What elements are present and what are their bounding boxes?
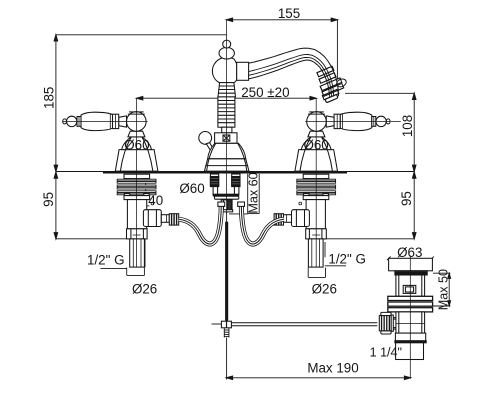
column bell skirt [204, 159, 249, 171]
fixture centrelines [227, 20, 411, 379]
left handle fixture (mirrored for right) [62, 98, 178, 267]
svg-text:Ø26: Ø26 [132, 281, 157, 296]
column finial ball 1 [223, 40, 231, 48]
pop-up lift knob [199, 132, 212, 145]
mounting studs [210, 174, 218, 187]
svg-text:1/2" G: 1/2" G [87, 252, 125, 267]
dimension Max 190 (rod to waste centre) [226, 377, 410, 379]
svg-text:Ø60: Ø60 [179, 181, 204, 196]
spray head band outlines [317, 66, 344, 103]
clamp plate [215, 196, 239, 199]
waste side port [403, 285, 416, 293]
dimension 155 (spout reach) [226, 20, 337, 84]
column ribbed barrel [218, 97, 235, 127]
leader line 1/2 G left [101, 267, 128, 269]
pop-up drain rod [226, 212, 228, 222]
column neck rings [218, 83, 236, 97]
handle neck and collar [119, 116, 127, 127]
waste tailpipe 1 1/4 [396, 343, 424, 360]
pop-up waste assembly [379, 258, 432, 359]
waste locking ring [395, 333, 425, 342]
grip tip ball [67, 116, 77, 126]
dimension 250 plus-minus 20 (handle centres) [137, 97, 317, 99]
grip tip rings [77, 117, 81, 127]
centre column below deck [210, 174, 240, 212]
horizontal rod to waste [231, 322, 377, 324]
bidet spray head bands [317, 66, 348, 103]
svg-text:185: 185 [41, 87, 56, 109]
svg-text:95: 95 [41, 192, 56, 207]
dimension 108 (spout outlet height) [345, 93, 414, 171]
column bell skirt [115, 150, 158, 172]
column finial ball 2 [219, 47, 234, 59]
hose crimp sleeve [161, 215, 169, 223]
svg-text:40: 40 [148, 193, 163, 208]
pop-up rod guide block [221, 200, 232, 212]
rod coupling knob [381, 312, 391, 315]
svg-text:Ø60: Ø60 [124, 138, 149, 153]
flexible supply hoses [179, 202, 284, 244]
svg-text:Max 190: Max 190 [307, 361, 358, 376]
waste lower body [396, 312, 425, 333]
dimension 40 (left shank clamp depth) [142, 174, 149, 206]
svg-text:Max 50: Max 50 [436, 269, 450, 310]
spout connector [237, 62, 249, 80]
porcelain lever grip [81, 112, 113, 130]
fixture centrelines [62, 98, 147, 267]
clamp bar [213, 194, 238, 196]
column collar with keyway [215, 133, 237, 144]
threaded shank [127, 200, 146, 229]
dimension 95 right (depth below deck) [324, 171, 414, 238]
1/2 G inlet tube [130, 239, 145, 267]
waste gasket band [395, 271, 427, 275]
dimension O26 bracket right [308, 268, 325, 278]
upper washer under deck [124, 174, 150, 178]
shank nut [127, 229, 148, 239]
svg-text:Ø63: Ø63 [397, 245, 422, 260]
svg-text:1 1/4": 1 1/4" [370, 345, 402, 359]
dimension Max 60 (deck thickness) [229, 174, 259, 214]
svg-text:250 ±20: 250 ±20 [241, 85, 289, 100]
dimension 185 (height above deck) [56, 35, 227, 172]
waste upper body [396, 275, 425, 296]
waste flange O63 [389, 258, 433, 271]
svg-text:Max 60: Max 60 [247, 172, 261, 213]
hex hose fitting [143, 210, 161, 227]
dimension 95 left (depth below deck) [56, 171, 127, 238]
handle bell dome [122, 137, 152, 150]
svg-text:108: 108 [400, 115, 415, 137]
dimension Max 50 (waste clamp range) [433, 273, 450, 306]
svg-text:Ø60: Ø60 [303, 138, 328, 153]
column bell dome [208, 143, 246, 159]
column lower neck [222, 127, 232, 133]
dimension O26 bracket left [127, 268, 145, 276]
locknut flange bands [117, 179, 156, 183]
lower washer [124, 194, 129, 196]
svg-text:1/2" G: 1/2" G [328, 252, 366, 267]
handle ball body [127, 112, 147, 132]
dimension O63 ticks (waste flange) [387, 256, 434, 260]
centre column body [199, 40, 249, 171]
svg-text:Ø26: Ø26 [312, 281, 337, 296]
countertop deck line [56, 171, 414, 173]
column main body [212, 58, 236, 83]
handle below-ball skirt [128, 131, 145, 137]
svg-text:95: 95 [399, 191, 414, 206]
leader line 1/2 G right [325, 265, 346, 267]
waste seal rings [388, 296, 433, 300]
hose ferrules at centre inlets [218, 202, 225, 206]
svg-text:155: 155 [278, 6, 300, 21]
